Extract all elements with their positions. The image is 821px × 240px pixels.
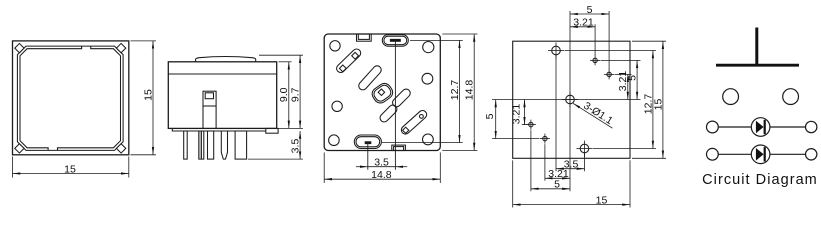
svg-text:15: 15 <box>64 163 76 175</box>
construction line y=148.5 right <box>593 148 656 150</box>
pin 3 <box>208 131 214 159</box>
side view button cap <box>196 57 256 62</box>
PCB square <box>513 41 630 158</box>
svg-text:12.7: 12.7 <box>449 80 461 101</box>
top terminal stadium inner <box>384 36 407 44</box>
svg-text:15: 15 <box>142 89 154 101</box>
bottom terminal stadium outer <box>354 135 381 149</box>
svg-text:5: 5 <box>484 113 496 119</box>
pin 1 <box>184 131 188 159</box>
pin 4 (pointed) <box>221 131 227 159</box>
dim 12.7 right: extensions <box>410 39 463 41</box>
side view latch channel <box>202 106 204 128</box>
dim 14.8 bottom: line <box>324 178 440 180</box>
top notch <box>357 34 372 41</box>
side view right flange block <box>266 128 278 133</box>
svg-text:15: 15 <box>596 194 608 206</box>
side view latch inner box <box>205 93 213 99</box>
construction line x=609.1 up <box>608 11 610 70</box>
circle top-right <box>423 42 434 53</box>
corner notch top-right <box>116 43 125 52</box>
tick marks top edge <box>82 48 90 50</box>
dim 15 right <box>662 41 664 158</box>
hole H3 <box>604 69 614 79</box>
hole H4 <box>540 134 550 144</box>
dim 9.7: extension + line <box>259 54 303 56</box>
LED row 2 <box>707 145 817 164</box>
dim 15 bottom: extension lines <box>12 157 14 178</box>
front view bezel inner octagon <box>20 49 121 148</box>
bottom view body outline <box>324 34 440 151</box>
svg-text:5: 5 <box>554 179 560 191</box>
extension top edge right <box>632 40 666 42</box>
svg-text:5: 5 <box>587 4 593 16</box>
side view base flange <box>172 128 265 131</box>
tick marks bottom edge <box>49 147 57 149</box>
hole C center <box>562 92 578 108</box>
construction line x=584.5 <box>584 153 586 171</box>
construction line x=595.1 up <box>594 24 596 56</box>
svg-text:3.5: 3.5 <box>374 157 389 169</box>
svg-text:9.7: 9.7 <box>290 87 302 102</box>
dim 3.5: line <box>368 166 396 168</box>
pin 2 <box>199 131 204 159</box>
circle mid-right <box>422 73 433 84</box>
dim 5 left <box>495 100 497 139</box>
construction line y=138.6 left <box>492 138 539 140</box>
svg-text:14.8: 14.8 <box>464 80 476 101</box>
side view latch slot <box>203 91 216 106</box>
dim 3.21 top <box>570 26 595 28</box>
dim 12.7 right <box>652 51 654 149</box>
construction line y=50.5 right <box>565 50 657 52</box>
construction line x=556 <box>555 55 557 171</box>
extension left edge down <box>512 160 514 207</box>
actuator bar <box>716 64 799 67</box>
dim 3.21 bottom <box>545 177 570 179</box>
construction line x=544.9 down <box>544 144 546 181</box>
construction line y=74.4 right <box>615 73 632 75</box>
top terminal stadium outer <box>382 35 408 47</box>
dim 3.21 right <box>627 74 629 99</box>
hole H2 <box>590 55 600 65</box>
slot C <box>378 103 398 123</box>
dim 3.5 bottom <box>556 168 585 170</box>
side view body <box>168 62 276 129</box>
actuator stem <box>755 28 758 66</box>
central double obround <box>370 81 396 106</box>
svg-text:Circuit Diagram: Circuit Diagram <box>702 172 818 188</box>
top terminal slot <box>390 39 400 41</box>
corner notch bottom-right <box>116 144 125 153</box>
circle top-left <box>330 41 340 51</box>
slot A <box>357 64 383 91</box>
contact circle right <box>783 89 799 105</box>
svg-text:3-Ø1.1: 3-Ø1.1 <box>581 100 615 127</box>
dim 14.8 right: extensions <box>442 33 477 35</box>
dim 15 bottom: dimension line <box>13 173 129 175</box>
dim 14.8 right: line <box>473 34 475 151</box>
dim 9.0: extension + line <box>279 61 292 63</box>
dim 14.8 bottom: extensions <box>323 153 325 184</box>
centerline from top terminal <box>394 40 396 169</box>
dim 15 right: extension lines <box>131 40 157 42</box>
svg-text:5: 5 <box>627 75 639 81</box>
extension right edge down <box>629 160 631 207</box>
slot S1 top-left with diamonds <box>335 47 362 74</box>
dim 5 right <box>636 60 638 99</box>
svg-text:3.21: 3.21 <box>573 17 594 29</box>
centerline from bottom terminal <box>367 142 369 170</box>
leader 3-O1.1 <box>573 103 613 128</box>
construction line y=99.5 <box>492 99 641 101</box>
corner notch top-left <box>15 43 24 52</box>
svg-text:9.0: 9.0 <box>278 87 290 102</box>
hole H6 <box>526 120 536 130</box>
construction line x=570 <box>569 11 571 191</box>
circle bottom-right <box>423 134 434 145</box>
bottom terminal slot <box>365 142 371 144</box>
dim 3.5 pins: extension + line <box>248 158 303 160</box>
corner notch bottom-left <box>15 144 24 153</box>
side view body band line <box>168 73 276 75</box>
bottom terminal stadium inner <box>356 137 380 147</box>
dim 15 right: dimension line <box>152 41 154 155</box>
svg-text:3.21: 3.21 <box>510 104 522 125</box>
svg-text:15: 15 <box>652 99 664 111</box>
front view bezel outer octagon <box>17 46 123 150</box>
bottom notch <box>392 145 406 150</box>
hole H1 top <box>548 43 564 59</box>
front view outer square <box>13 41 129 155</box>
construction line y=60.4 right <box>601 59 641 61</box>
slot B <box>391 87 412 108</box>
LED row 1 <box>707 118 817 137</box>
contact circle left <box>723 89 739 105</box>
svg-text:3.5: 3.5 <box>290 139 302 154</box>
svg-text:14.8: 14.8 <box>371 169 392 181</box>
pin 5 <box>235 131 247 159</box>
hole H5 bottom <box>577 141 593 157</box>
dim 5 bottom <box>531 188 570 190</box>
dim 12.7 right: line <box>459 40 461 142</box>
slot D with diamond and hole <box>400 109 429 136</box>
dim 3.21 left <box>524 100 526 125</box>
dim 15 bottom <box>513 204 630 206</box>
dim 5 top <box>570 13 609 15</box>
construction line y=124.6 left <box>522 124 529 126</box>
circle mid-left <box>332 101 342 111</box>
circle bottom-left <box>329 135 340 146</box>
extension bottom edge right <box>632 157 666 159</box>
construction line x=530.9 down <box>530 130 532 191</box>
